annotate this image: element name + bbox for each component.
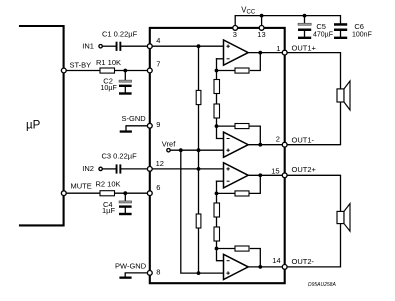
svg-text:IN2: IN2 <box>82 164 94 173</box>
svg-text:MUTE: MUTE <box>71 182 92 191</box>
svg-text:D95AU258A: D95AU258A <box>308 282 336 288</box>
svg-text:ST-BY: ST-BY <box>70 60 92 69</box>
svg-text:1: 1 <box>276 44 280 53</box>
svg-text:C1 0.22µF: C1 0.22µF <box>102 30 138 39</box>
svg-text:Vref: Vref <box>162 139 176 148</box>
svg-text:S-GND: S-GND <box>122 114 147 123</box>
svg-text:OUT2+: OUT2+ <box>292 165 317 174</box>
svg-text:C6: C6 <box>354 22 364 31</box>
svg-text:6: 6 <box>156 183 160 192</box>
svg-text:2: 2 <box>276 134 280 143</box>
svg-text:13: 13 <box>257 30 265 39</box>
svg-text:PW-GND: PW-GND <box>115 262 147 271</box>
svg-text:VCC: VCC <box>241 5 256 15</box>
svg-text:R2 10K: R2 10K <box>96 180 121 189</box>
svg-text:R1 10K: R1 10K <box>96 58 121 67</box>
svg-text:15: 15 <box>271 167 279 176</box>
svg-text:1µF: 1µF <box>102 206 115 215</box>
svg-text:OUT2-: OUT2- <box>292 257 315 266</box>
svg-text:10µF: 10µF <box>100 83 117 92</box>
svg-text:C3 0.22µF: C3 0.22µF <box>102 152 138 161</box>
svg-text:9: 9 <box>156 120 160 129</box>
svg-text:OUT1-: OUT1- <box>292 136 315 145</box>
svg-text:14: 14 <box>272 256 280 265</box>
svg-text:100nF: 100nF <box>352 32 372 39</box>
svg-text:3: 3 <box>233 30 237 39</box>
svg-text:IN1: IN1 <box>82 41 94 50</box>
svg-text:12: 12 <box>156 159 164 168</box>
svg-text:C5: C5 <box>316 22 326 31</box>
svg-text:8: 8 <box>156 267 160 276</box>
svg-text:470µF: 470µF <box>313 32 333 39</box>
svg-text:µP: µP <box>26 119 41 131</box>
svg-text:4: 4 <box>156 36 160 45</box>
svg-text:OUT1+: OUT1+ <box>292 43 317 52</box>
svg-text:7: 7 <box>156 60 160 69</box>
